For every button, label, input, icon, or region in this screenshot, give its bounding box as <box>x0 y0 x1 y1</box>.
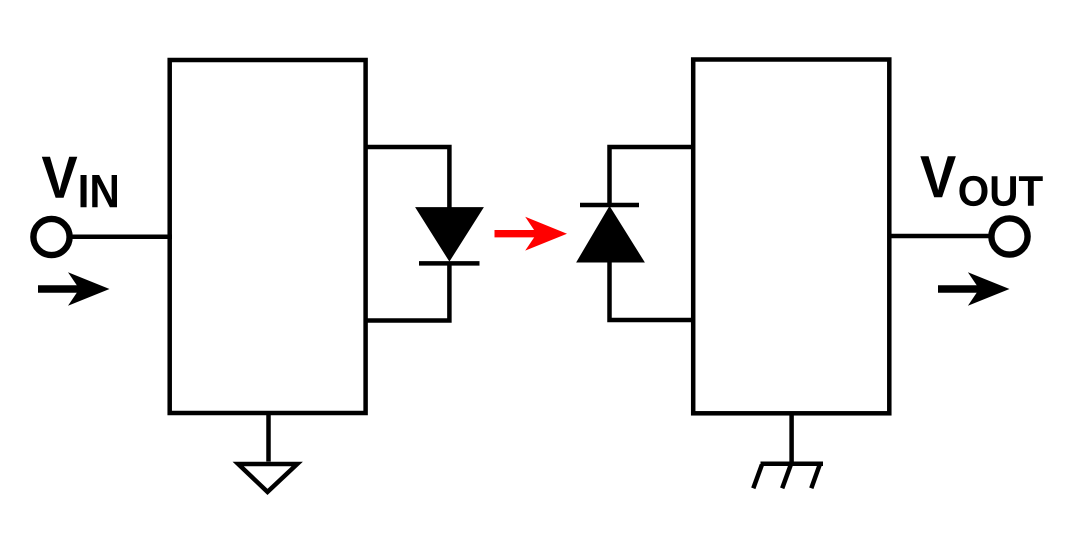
ground signal input side <box>238 464 297 492</box>
wire U2 to VOUT <box>889 234 992 239</box>
label VOUT <box>920 156 955 197</box>
photodiode D2 <box>580 203 639 208</box>
wire VIN to U1 <box>72 234 172 239</box>
wire U2 to chassis ground <box>789 413 794 464</box>
ground chassis output side <box>753 464 823 489</box>
wire photodiode anode to U2 <box>610 262 694 320</box>
arrow input signal <box>38 285 81 292</box>
arrow output signal <box>938 285 981 292</box>
wire LED cathode to U1 <box>366 263 450 320</box>
box U1 input circuit <box>170 60 366 413</box>
node VOUT terminal <box>991 218 1027 254</box>
wire photodiode cathode to U2 <box>610 147 694 205</box>
arrow light emission red <box>495 230 539 237</box>
LED D1 <box>416 208 483 261</box>
box U2 output circuit <box>693 60 889 414</box>
label VIN <box>42 157 77 198</box>
wire U1 to LED anode <box>366 147 450 208</box>
node VIN terminal <box>33 219 69 255</box>
wire U1 to ground <box>266 413 271 462</box>
